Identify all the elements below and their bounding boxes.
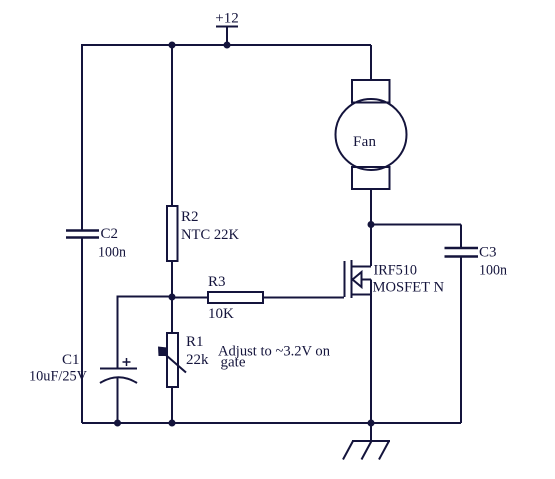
resistor R1 (potentiometer) [167, 333, 178, 387]
junction dot C1 bottom [114, 420, 121, 427]
svg-text:C2: C2 [101, 226, 119, 242]
wire ground stub [370, 423, 372, 441]
transistor Q1 IRF510 MOSFET [345, 260, 372, 298]
svg-text:C3: C3 [479, 245, 497, 261]
svg-text:R2: R2 [181, 209, 199, 225]
capacitor C2 [66, 231, 99, 238]
potentiometer R1 wiper arrow [158, 347, 186, 373]
resistor R2 [167, 206, 178, 261]
resistor R3 [208, 292, 263, 303]
junction dot R1 bottom [169, 420, 176, 427]
svg-text:10K: 10K [208, 306, 234, 322]
junction dot ground node [368, 420, 375, 427]
wire MOSFET source lead down [370, 280, 372, 424]
capacitor C1 (electrolytic) [100, 369, 137, 384]
svg-text:NTC 22K: NTC 22K [181, 227, 239, 243]
svg-text:100n: 100n [479, 263, 507, 279]
C1 plus sign [123, 358, 131, 366]
wire R3 right lead to gate [263, 297, 344, 299]
wire bottom rail [82, 422, 461, 424]
svg-text:Fan: Fan [353, 134, 377, 150]
wire R1 bottom lead [171, 387, 173, 423]
wire C3 lower lead [460, 257, 462, 424]
wire C1 bottom lead [117, 378, 119, 423]
wire top rail [82, 44, 371, 46]
svg-text:R3: R3 [208, 274, 226, 290]
svg-text:+12: +12 [215, 11, 238, 27]
svg-text:MOSFET N: MOSFET N [373, 280, 445, 296]
wire node A to C1 branch [118, 297, 173, 369]
wire +12 stub [226, 27, 228, 46]
svg-text:C1: C1 [62, 352, 80, 368]
wire R3 left lead [172, 297, 208, 299]
wire fan top stub [370, 45, 372, 80]
svg-text:R1: R1 [186, 334, 204, 350]
wire R2 bottom to node A [171, 261, 173, 333]
motor M1 Fan [336, 80, 407, 189]
junction dot drain node [368, 221, 375, 228]
svg-text:IRF510: IRF510 [374, 263, 418, 279]
wire left vertical upper (to C2) [81, 44, 83, 230]
junction dot +12 [224, 42, 231, 49]
svg-text:100n: 100n [98, 245, 126, 261]
wire fan bottom to drain [370, 189, 372, 266]
wire C3 upper lead [460, 225, 462, 249]
wire R2 top lead [171, 45, 173, 206]
wire left vertical lower (C2 to bottom rail) [81, 238, 83, 423]
capacitor C3 [445, 248, 479, 257]
junction dot node A [169, 294, 176, 301]
power +12 bar [216, 26, 238, 28]
svg-text:10uF/25V: 10uF/25V [29, 369, 87, 385]
wire drain node to C3 branch [371, 224, 461, 226]
junction dot top left [169, 42, 176, 49]
ground [343, 441, 390, 460]
svg-text:gate: gate [221, 355, 246, 371]
svg-text:22k: 22k [186, 352, 209, 368]
